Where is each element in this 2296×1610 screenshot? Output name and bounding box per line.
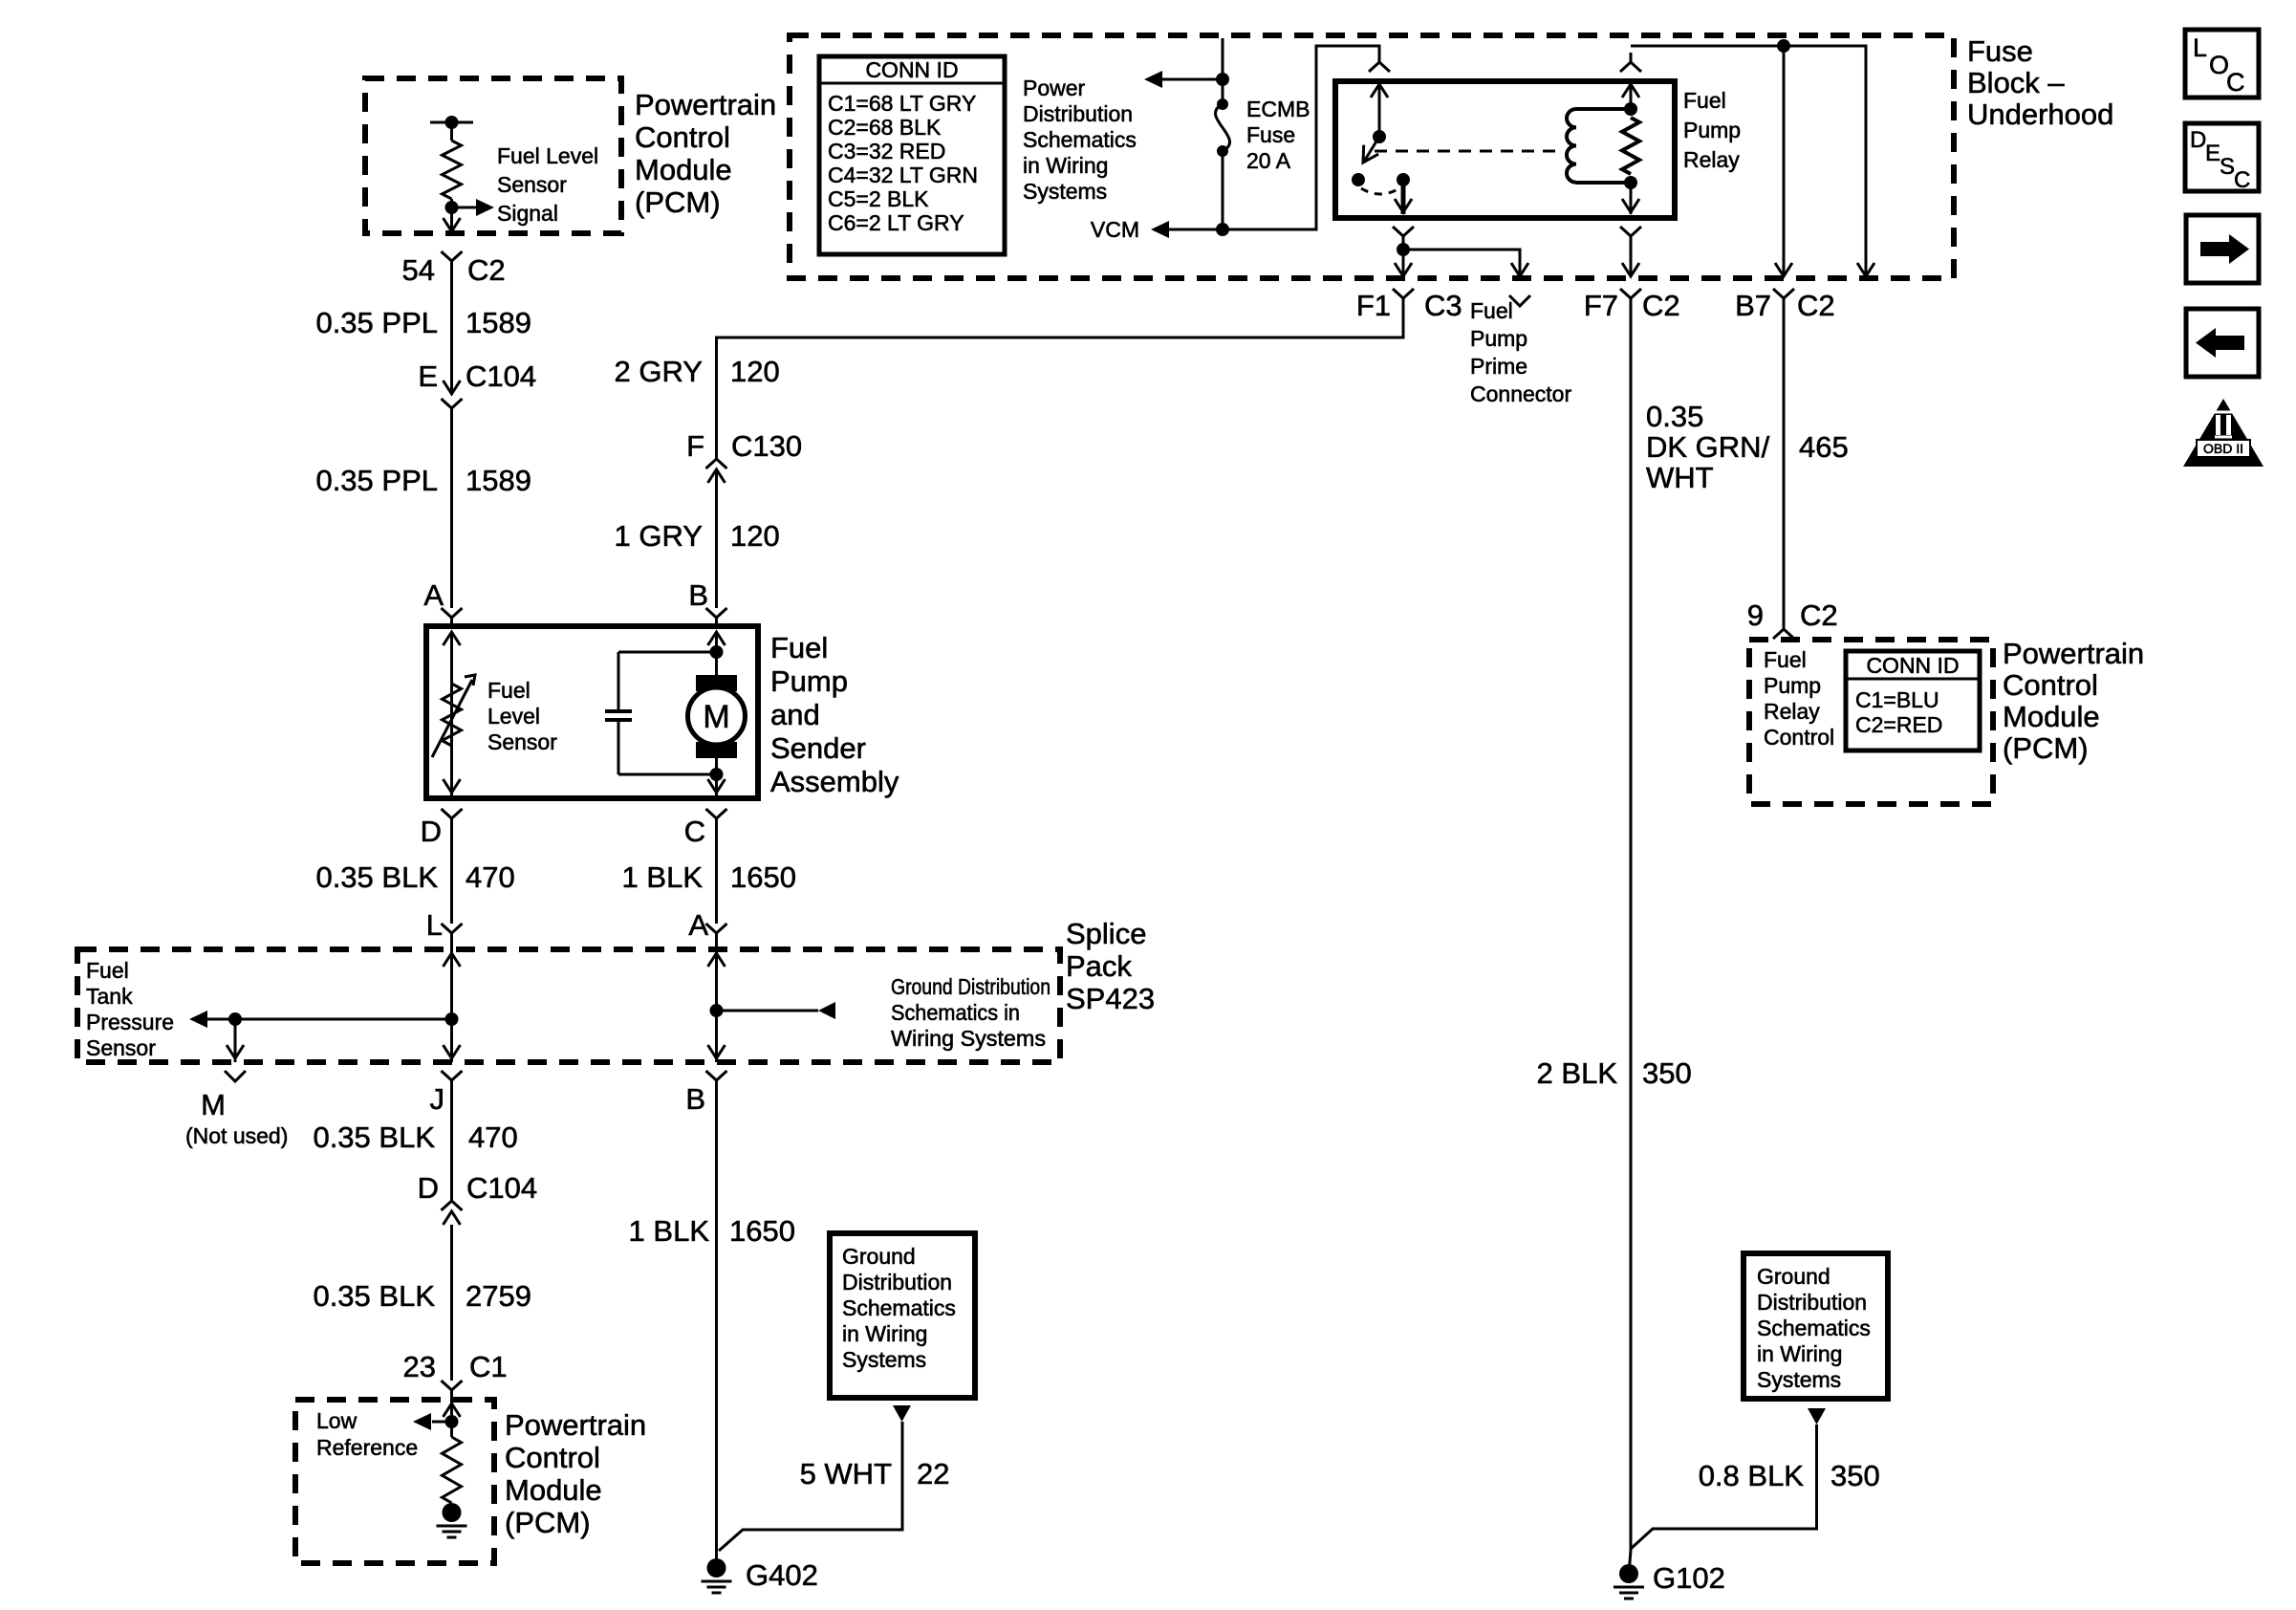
connector: pin B chevron below splice <box>706 1071 727 1092</box>
table: CONN ID (right PCM) <box>1846 651 1980 751</box>
connector: relay switch common pin top <box>1369 53 1390 72</box>
svg-text:J: J <box>430 1082 445 1116</box>
svg-text:Reference: Reference <box>316 1435 418 1460</box>
node: junction dot power distribution takeoff <box>1216 73 1229 86</box>
svg-text:1 BLK: 1 BLK <box>622 860 704 894</box>
wire: splice internal right vertical A to B <box>715 949 718 1062</box>
svg-text:(PCM): (PCM) <box>505 1506 591 1539</box>
svg-text:Schematics: Schematics <box>1757 1316 1871 1340</box>
svg-text:C2: C2 <box>1797 289 1835 322</box>
wire: battery feed vertical to ECMB fuse <box>1222 38 1224 104</box>
svg-text:Powertrain: Powertrain <box>505 1408 646 1442</box>
connector: pin B chevron <box>706 608 727 629</box>
svg-text:350: 350 <box>1830 1459 1880 1492</box>
svg-text:0.35 BLK: 0.35 BLK <box>315 860 438 894</box>
node: junction dot VCM line <box>1216 223 1229 236</box>
connector: pin D chevron below sender <box>442 809 463 830</box>
node: junction dot B7 takeoff on top bus <box>1777 39 1790 53</box>
resistor: PCM fuel level sensor signal pull-up <box>443 141 462 199</box>
node: junction dot fuel pump prime takeoff <box>1397 243 1410 256</box>
svg-text:C2: C2 <box>1642 289 1680 322</box>
connector: F1 C3 pin below fuse block <box>1393 289 1414 310</box>
node: junction dot splice right <box>710 1004 724 1017</box>
wire: splice internal left vertical L to J <box>450 949 453 1062</box>
motor M1: fuel pump motor <box>696 675 737 691</box>
svg-text:Ground Distribution: Ground Distribution <box>891 974 1051 999</box>
connector: D C104 inline connector <box>442 1201 463 1210</box>
svg-text:465: 465 <box>1799 430 1849 464</box>
svg-text:23: 23 <box>403 1350 436 1383</box>
svg-text:Splice: Splice <box>1066 917 1146 950</box>
svg-text:Pack: Pack <box>1066 949 1132 983</box>
svg-text:F7: F7 <box>1584 289 1618 322</box>
svg-text:(Not used): (Not used) <box>185 1123 288 1148</box>
connector: solid triangle below left ground distribution box <box>893 1405 911 1422</box>
svg-text:Fuel: Fuel <box>1683 88 1726 113</box>
wire: relay coil terminal down to F7 pin <box>1630 183 1633 214</box>
connector: pin M chevron (not used) <box>225 1071 246 1081</box>
svg-text:Pump: Pump <box>1683 118 1741 142</box>
connector: B7 C2 pin below fuse block <box>1773 289 1794 310</box>
connector: pin 54 C2 below PCM <box>442 251 463 272</box>
svg-text:C2=RED: C2=RED <box>1855 712 1942 737</box>
svg-text:C: C <box>684 815 705 848</box>
wire: relay top bus from coil pin to right loop <box>1631 46 1866 274</box>
wire: F7 pin drop below relay <box>1620 227 1641 248</box>
connector: relay coil pin top <box>1620 53 1641 72</box>
icon: OBD II triangle <box>2183 399 2264 467</box>
svg-text:L: L <box>426 908 443 942</box>
svg-text:Underhood: Underhood <box>1967 98 2113 131</box>
svg-text:Distribution: Distribution <box>842 1270 952 1295</box>
wire: 1 BLK 1650 from pin C to splice pack pin A <box>715 830 718 924</box>
ground: PCM internal ground <box>443 1503 462 1522</box>
svg-text:S: S <box>2220 154 2235 180</box>
svg-text:and: and <box>770 698 820 731</box>
wire: VCM feed arrow and loop to relay switch <box>1168 228 1223 231</box>
wire: internal signal wire top bar inside PCM <box>430 121 473 124</box>
svg-text:5 WHT: 5 WHT <box>800 1457 893 1490</box>
node: junction dot at signal takeoff <box>445 201 459 214</box>
svg-text:VCM: VCM <box>1091 217 1139 242</box>
module box: Powertrain Control Module (PCM) top-left, dashed <box>365 78 621 233</box>
wire: B7 wire down inside fuse block <box>1783 46 1786 274</box>
wire: PCM low reference internal wire <box>450 1402 453 1437</box>
svg-text:Powertrain: Powertrain <box>635 88 776 121</box>
svg-text:C4=32 LT GRN: C4=32 LT GRN <box>828 163 978 187</box>
wire: F1 pin drop below relay <box>1393 227 1414 248</box>
connector: F C130 inline connector <box>706 459 727 468</box>
svg-text:2759: 2759 <box>466 1279 531 1313</box>
svg-text:C130: C130 <box>731 429 802 463</box>
connector: pin J chevron <box>442 1071 463 1092</box>
svg-text:F1: F1 <box>1356 289 1391 322</box>
table: CONN ID connector identification (fuse block) <box>819 56 1005 254</box>
relay K1: Fuel Pump Relay box <box>1335 81 1675 218</box>
wire: 0.35 BLK 2759 from C104 to PCM pin 23 <box>450 1225 453 1381</box>
wire: 0.35 DK GRN/WHT 465 from B7 C2 to PCM pin 9 <box>1783 310 1786 620</box>
svg-text:Low: Low <box>316 1408 357 1433</box>
wire: capacitor bottom link to motor wire <box>618 773 717 776</box>
svg-text:C3: C3 <box>1424 289 1462 322</box>
svg-text:Ground: Ground <box>1757 1264 1830 1289</box>
wire: 1 GRY 120 from C130 to pump pin B <box>715 470 718 608</box>
svg-text:Assembly: Assembly <box>770 765 899 798</box>
svg-text:C1: C1 <box>469 1350 508 1383</box>
wire: ECMB fuse to VCM junction <box>1222 151 1224 229</box>
wire: 2 BLK 350 from F7 C2 down to ground G102 <box>1630 310 1633 1551</box>
svg-text:0.35 PPL: 0.35 PPL <box>315 306 438 339</box>
wire: power distribution arrow <box>1162 78 1223 81</box>
node: relay NC contact dot <box>1352 173 1365 186</box>
svg-text:9: 9 <box>1747 598 1764 632</box>
svg-text:0.35 PPL: 0.35 PPL <box>315 464 438 497</box>
svg-text:G402: G402 <box>746 1558 818 1592</box>
wire: 0.8 BLK 350 to ground G102 <box>1631 1425 1817 1549</box>
node: junction dot coil bottom <box>1624 176 1637 189</box>
svg-text:B7: B7 <box>1735 289 1771 322</box>
svg-text:Sensor: Sensor <box>487 729 557 754</box>
svg-text:Fuse: Fuse <box>1967 34 2033 68</box>
module box: Ground Distribution Schematics in Wiring Systems (right) <box>1744 1253 1888 1399</box>
resistor: variable fuel level sensor <box>443 684 462 746</box>
svg-text:Distribution: Distribution <box>1023 101 1133 126</box>
wire: PCM pin 54 to C104 <box>450 272 453 394</box>
svg-text:F: F <box>686 429 704 463</box>
svg-text:WHT: WHT <box>1646 461 1714 494</box>
wire: signal wire down to PCM box edge <box>450 207 453 233</box>
svg-text:Control: Control <box>505 1441 600 1474</box>
svg-text:Module: Module <box>505 1473 602 1507</box>
icon: back arrow box <box>2186 309 2259 377</box>
svg-text:1 GRY: 1 GRY <box>615 519 703 553</box>
svg-text:Schematics: Schematics <box>1023 127 1137 152</box>
svg-text:Schematics in: Schematics in <box>891 1000 1020 1025</box>
wire: relay NO contact to F1 pin <box>1401 182 1406 214</box>
svg-text:C5=2 BLK: C5=2 BLK <box>828 186 929 211</box>
wire: signal arrow to the right <box>452 207 482 209</box>
switch: relay movable contact arm <box>1363 137 1379 163</box>
svg-text:0.35: 0.35 <box>1646 400 1703 433</box>
svg-text:Control: Control <box>2003 668 2098 702</box>
svg-text:in Wiring: in Wiring <box>1757 1341 1842 1366</box>
node: junction dot coil top <box>1624 102 1637 116</box>
svg-text:Sensor: Sensor <box>497 172 567 197</box>
node: relay NO contact dot <box>1397 173 1410 186</box>
wire: splice branch to fuel tank pressure sensor <box>207 1018 452 1021</box>
svg-text:E: E <box>2205 141 2220 166</box>
svg-text:Prime: Prime <box>1470 354 1527 379</box>
svg-text:D: D <box>418 1171 439 1205</box>
svg-text:Fuel: Fuel <box>1764 647 1807 672</box>
svg-text:Fuel: Fuel <box>86 958 129 983</box>
svg-text:Module: Module <box>635 153 732 186</box>
node: junction dot splice left <box>445 1012 459 1026</box>
wire: dashed actuation link switch to coil <box>1375 150 1562 153</box>
module box: Powertrain Control Module (PCM) right, dashed <box>1749 640 1993 804</box>
svg-text:Fuel Level: Fuel Level <box>497 143 598 168</box>
wire: 2 GRY 120 from fuse block F1 down and left to C130 <box>717 299 1404 459</box>
svg-text:SP423: SP423 <box>1066 982 1155 1015</box>
svg-text:Fuse: Fuse <box>1246 122 1295 147</box>
resistor: PCM low reference <box>443 1437 462 1503</box>
svg-text:C1=68 LT GRY: C1=68 LT GRY <box>828 91 976 116</box>
svg-text:1589: 1589 <box>466 464 531 497</box>
wire: sender internal right wire pin B to C <box>715 632 718 798</box>
svg-text:Fuel: Fuel <box>1470 298 1513 323</box>
svg-text:Pump: Pump <box>1470 326 1527 351</box>
wire: 5 WHT 22 to ground G402 <box>719 1422 902 1551</box>
svg-text:Sender: Sender <box>770 731 866 765</box>
svg-text:Relay: Relay <box>1683 147 1740 172</box>
svg-text:1650: 1650 <box>729 1214 795 1248</box>
svg-text:Systems: Systems <box>1023 179 1107 204</box>
svg-text:CONN ID: CONN ID <box>1866 653 1959 678</box>
wire: 0.35 BLK 470 from pin J to C104 pin D <box>450 1092 453 1201</box>
connector: E C104 inline connector <box>444 381 461 394</box>
node: junction dot motor bottom <box>710 768 724 781</box>
svg-text:in Wiring: in Wiring <box>842 1321 927 1346</box>
svg-text:Control: Control <box>635 120 730 154</box>
svg-text:Distribution: Distribution <box>1757 1290 1867 1315</box>
svg-text:Module: Module <box>2003 700 2100 733</box>
svg-text:D: D <box>2190 127 2206 153</box>
svg-text:2 BLK: 2 BLK <box>1537 1056 1618 1090</box>
node: junction dot for M branch <box>228 1012 242 1026</box>
connector: pin L chevron <box>442 924 463 945</box>
svg-text:M: M <box>703 699 729 735</box>
svg-text:Control: Control <box>1764 725 1834 750</box>
svg-text:C: C <box>2234 167 2250 193</box>
svg-text:(PCM): (PCM) <box>2003 731 2089 765</box>
wire: capacitor top link to motor wire <box>618 651 717 654</box>
node: relay switch pivot dot <box>1373 130 1386 143</box>
svg-text:20 A: 20 A <box>1246 148 1291 173</box>
wire: C104 to fuel pump sender pin A, 0.35 PPL 1589 <box>450 408 453 608</box>
svg-text:350: 350 <box>1642 1056 1692 1090</box>
coil: relay coil winding <box>1567 109 1576 183</box>
svg-text:1 BLK: 1 BLK <box>629 1214 710 1248</box>
svg-text:2 GRY: 2 GRY <box>615 355 703 388</box>
svg-text:C1=BLU: C1=BLU <box>1855 687 1939 712</box>
svg-text:Connector: Connector <box>1470 381 1571 406</box>
svg-text:Systems: Systems <box>842 1347 926 1372</box>
node: junction dot low reference <box>445 1415 459 1428</box>
svg-text:C104: C104 <box>466 359 536 393</box>
wire: 0.35 BLK 470 from pin D to splice pack pin L <box>450 830 453 924</box>
module box: Fuse Block - Underhood, dashed <box>790 35 1954 278</box>
svg-text:0.35 BLK: 0.35 BLK <box>313 1279 435 1313</box>
wire: dashed swing arc between contacts <box>1361 188 1399 194</box>
module box: Ground Distribution Schematics in Wiring Systems (left) <box>830 1233 975 1398</box>
svg-text:Schematics: Schematics <box>842 1295 956 1320</box>
wire: low reference arrow <box>432 1421 452 1424</box>
svg-text:0.8 BLK: 0.8 BLK <box>1699 1459 1805 1492</box>
icon: DESC reference box <box>2185 123 2259 191</box>
connector: pin A chevron <box>442 608 463 629</box>
svg-text:54: 54 <box>402 253 435 287</box>
module box: Powertrain Control Module (PCM) bottom-left, dashed <box>295 1400 494 1563</box>
svg-text:22: 22 <box>917 1457 949 1490</box>
icon: LOC reference box <box>2185 30 2259 98</box>
svg-text:1650: 1650 <box>730 860 796 894</box>
connector: F7 C2 pin below fuse block <box>1620 289 1641 310</box>
svg-text:Powertrain: Powertrain <box>2003 637 2144 670</box>
svg-text:M: M <box>201 1088 226 1121</box>
svg-text:Fuel: Fuel <box>487 678 531 703</box>
svg-text:C104: C104 <box>466 1171 537 1205</box>
svg-text:L: L <box>2193 33 2207 62</box>
node: junction dot at top of fuel level sensor signal resistor <box>445 116 459 129</box>
svg-text:Pump: Pump <box>770 664 848 698</box>
capacitor: pump noise suppression capacitor <box>617 652 620 711</box>
svg-text:Pump: Pump <box>1764 673 1821 698</box>
svg-text:C3=32 RED: C3=32 RED <box>828 139 945 163</box>
connector: pin A chevron (splice) <box>706 924 727 945</box>
svg-text:Sensor: Sensor <box>86 1035 156 1060</box>
svg-text:(PCM): (PCM) <box>635 185 721 219</box>
svg-text:Level: Level <box>487 704 540 729</box>
svg-text:ECMB: ECMB <box>1246 97 1310 121</box>
svg-text:DK GRN/: DK GRN/ <box>1646 430 1770 464</box>
svg-text:1589: 1589 <box>466 306 531 339</box>
svg-text:Wiring Systems: Wiring Systems <box>891 1026 1046 1051</box>
svg-text:B: B <box>685 1082 705 1116</box>
svg-text:Relay: Relay <box>1764 699 1820 724</box>
svg-text:A: A <box>423 578 444 612</box>
svg-text:120: 120 <box>730 519 780 553</box>
icon: forward arrow box <box>2186 215 2259 283</box>
svg-text:OBD II: OBD II <box>2203 441 2243 456</box>
svg-text:CONN ID: CONN ID <box>865 57 958 82</box>
svg-text:C2: C2 <box>467 253 506 287</box>
svg-text:Block –: Block – <box>1967 66 2065 99</box>
svg-text:Pressure: Pressure <box>86 1010 174 1034</box>
connector: fuel pump prime connector chevron <box>1509 295 1530 306</box>
module box: Fuel Pump and Sender Assembly <box>426 626 758 798</box>
wire: relay common arm feed <box>1378 84 1381 137</box>
svg-text:Tank: Tank <box>86 984 133 1009</box>
svg-text:120: 120 <box>730 355 780 388</box>
fuse F1: ECMB Fuse 20 A <box>1217 98 1228 110</box>
connector: pin 23 C1 chevron <box>442 1381 463 1402</box>
resistor: relay coil suppression resistor <box>1622 118 1639 174</box>
svg-text:C2: C2 <box>1800 598 1838 632</box>
svg-text:D: D <box>421 815 442 848</box>
svg-text:0.35 BLK: 0.35 BLK <box>313 1120 435 1154</box>
svg-text:470: 470 <box>466 860 515 894</box>
svg-text:C2=68 BLK: C2=68 BLK <box>828 115 942 140</box>
svg-text:E: E <box>418 359 438 393</box>
wire: unused M branch drop <box>234 1019 237 1062</box>
wire: 1 BLK 1650 from splice pin B down to ground G402 <box>715 1092 718 1566</box>
svg-text:G102: G102 <box>1653 1561 1725 1595</box>
svg-text:Ground: Ground <box>842 1244 916 1269</box>
wire: splice branch to ground distribution reference <box>717 1010 819 1012</box>
svg-text:C: C <box>2226 68 2245 97</box>
wire: fuel pump prime connector branch <box>1403 250 1520 274</box>
svg-text:in Wiring: in Wiring <box>1023 153 1108 178</box>
ground G402 <box>707 1558 726 1577</box>
svg-text:C6=2 LT GRY: C6=2 LT GRY <box>828 210 964 235</box>
svg-text:Signal: Signal <box>497 201 558 226</box>
svg-text:Fuel: Fuel <box>770 631 828 664</box>
ground G102 <box>1619 1564 1638 1583</box>
connector: pin 9 C2 into PCM <box>1773 620 1794 639</box>
svg-text:B: B <box>688 578 708 612</box>
svg-text:Power: Power <box>1023 76 1086 100</box>
node: junction dot motor top <box>710 645 724 659</box>
wire: relay coil terminal up to B+ pin <box>1630 84 1633 109</box>
svg-text:Systems: Systems <box>1757 1367 1841 1392</box>
wire: sender internal left wire pin A to D <box>450 632 453 798</box>
connector: solid triangle below right ground distribution box <box>1808 1408 1826 1425</box>
svg-text:470: 470 <box>468 1120 518 1154</box>
module box: Splice Pack SP423, dashed <box>77 949 1060 1062</box>
connector: pin C chevron below sender <box>706 809 727 830</box>
